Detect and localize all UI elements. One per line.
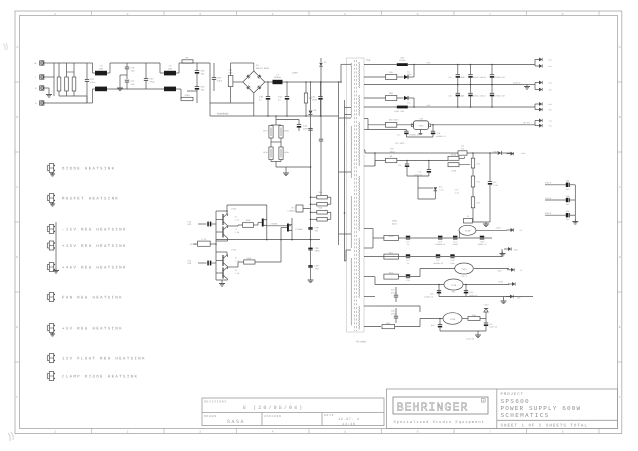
- svg-text:D: D: [619, 255, 621, 259]
- svg-text:+46V: +46V: [493, 150, 499, 153]
- svg-text:POWER SUPPLY 600W: POWER SUPPLY 600W: [501, 405, 582, 412]
- svg-text:8: 8: [562, 12, 564, 16]
- svg-text:-15V REG HEATSINK: -15V REG HEATSINK: [62, 227, 127, 232]
- svg-text:5: 5: [344, 430, 346, 434]
- svg-text:3: 3: [199, 430, 201, 434]
- svg-text:4: 4: [272, 430, 274, 434]
- svg-text:100n: 100n: [303, 127, 309, 130]
- svg-text:471: 471: [315, 229, 320, 232]
- svg-text:TR-SP06: TR-SP06: [356, 341, 367, 344]
- svg-text:R6L9: R6L9: [389, 272, 394, 275]
- svg-text:POWERGND: POWERGND: [217, 112, 229, 115]
- svg-text:3: 3: [199, 12, 201, 16]
- svg-text:K.1P: K.1P: [202, 238, 208, 241]
- svg-text:5: 5: [344, 12, 346, 16]
- svg-text:A: A: [16, 45, 18, 49]
- svg-text:1: 1: [54, 12, 56, 16]
- svg-text:2: 2: [127, 12, 129, 16]
- svg-text:C: C: [16, 185, 18, 189]
- svg-text:470μ: 470μ: [184, 94, 190, 97]
- svg-text:C07 U5C2: C07 U5C2: [395, 142, 405, 145]
- svg-text:6: 6: [417, 12, 419, 16]
- svg-text:D1D0: D1D0: [392, 222, 398, 225]
- svg-text:E: E: [619, 325, 621, 329]
- svg-text:1n0: 1n0: [131, 69, 136, 72]
- svg-text:L200: L200: [450, 318, 456, 321]
- svg-text:BEHRINGER: BEHRINGER: [397, 400, 469, 414]
- svg-text:4: 4: [272, 12, 274, 16]
- svg-text:R6L7: R6L7: [389, 252, 394, 255]
- svg-text:10MB1: 10MB1: [452, 243, 459, 246]
- svg-text:2200-1B: 2200-1B: [489, 326, 498, 329]
- svg-text:47μn: 47μn: [217, 79, 223, 82]
- svg-text:D1b: D1b: [549, 65, 552, 68]
- svg-text:6: 6: [417, 430, 419, 434]
- svg-text:+5V REG HEATSINK: +5V REG HEATSINK: [62, 326, 123, 331]
- svg-text:RP17: RP17: [263, 130, 268, 133]
- svg-text:7C1B: 7C1B: [465, 230, 471, 233]
- svg-text:+15V: +15V: [498, 280, 504, 283]
- svg-text:+15V: +15V: [496, 227, 502, 230]
- svg-text:10000B-25: 10000B-25: [436, 135, 447, 138]
- svg-text:C39: C39: [461, 76, 464, 79]
- svg-text:47μn: 47μn: [150, 80, 156, 83]
- svg-text:CLAMP DIODE HEATSINK: CLAMP DIODE HEATSINK: [62, 374, 138, 379]
- svg-text:47μn: 47μn: [90, 81, 96, 84]
- svg-text:U512: U512: [390, 151, 396, 154]
- svg-text:7: 7: [489, 430, 491, 434]
- svg-text:T91.5: T91.5: [461, 275, 468, 278]
- svg-text:E: E: [16, 325, 18, 329]
- svg-text:470μ0: 470μ0: [391, 291, 398, 294]
- svg-text:4700B-16R: 4700B-16R: [494, 94, 505, 97]
- svg-text:KBL10 600V: KBL10 600V: [256, 67, 270, 70]
- svg-text:L7400B: L7400B: [270, 223, 278, 226]
- svg-text:R200: R200: [246, 219, 252, 222]
- svg-text:FAN REG HEATSINK: FAN REG HEATSINK: [62, 295, 123, 300]
- svg-text:SHEET 1 OF 2 SHEETS TOTAL: SHEET 1 OF 2 SHEETS TOTAL: [501, 424, 588, 429]
- svg-text:F: F: [619, 395, 621, 399]
- svg-text:B: B: [619, 115, 621, 119]
- svg-text:100n: 100n: [407, 73, 412, 76]
- svg-text:DRAWN: DRAWN: [204, 415, 217, 418]
- svg-text:D2b: D2b: [549, 109, 552, 112]
- svg-text:2: 2: [127, 430, 129, 434]
- svg-text:2mH: 2mH: [168, 67, 173, 70]
- svg-text:220B-1B: 220B-1B: [466, 338, 475, 341]
- svg-text:1.37: 1.37: [235, 218, 240, 221]
- svg-text:C47: C47: [397, 133, 400, 136]
- svg-text:Specialized Studio Equipment: Specialized Studio Equipment: [394, 420, 485, 425]
- svg-text:PowerB: PowerB: [513, 81, 521, 84]
- svg-text:C3A-B: C3A-B: [545, 197, 552, 200]
- svg-text:VT62: VT62: [231, 208, 237, 211]
- svg-text:1n0: 1n0: [131, 83, 136, 86]
- svg-text:C19: C19: [448, 76, 451, 79]
- svg-text:B: B: [16, 115, 18, 119]
- svg-text:C3B-B: C3B-B: [545, 182, 552, 185]
- svg-text:D15 U501: D15 U501: [389, 119, 399, 122]
- svg-text:PROJECT: PROJECT: [501, 392, 524, 397]
- svg-text:VT63: VT63: [231, 249, 237, 252]
- svg-text:D3B-B: D3B-B: [545, 212, 552, 215]
- svg-text:C: C: [619, 185, 621, 189]
- svg-text:-15: -15: [519, 269, 522, 272]
- svg-text:12V FLOAT REG HEATSINK: 12V FLOAT REG HEATSINK: [62, 356, 146, 361]
- svg-text:SASA: SASA: [227, 419, 245, 425]
- svg-text:L40B: L40B: [451, 170, 457, 173]
- svg-text:L11B: L11B: [451, 284, 457, 287]
- svg-text:12.07. 4: 12.07. 4: [338, 417, 360, 422]
- svg-text:14:38: 14:38: [342, 422, 356, 427]
- svg-text:10n: 10n: [201, 72, 206, 75]
- svg-text:REVISIONS: REVISIONS: [204, 400, 227, 403]
- svg-text:1B0B1-25: 1B0B1-25: [477, 243, 487, 246]
- svg-text:+5b: +5b: [549, 125, 552, 128]
- svg-text:1u: 1u: [407, 243, 409, 246]
- svg-text:MOSFET HEATSINK: MOSFET HEATSINK: [62, 196, 119, 201]
- svg-text:1u: 1u: [407, 262, 409, 265]
- svg-text:2mH: 2mH: [99, 67, 104, 70]
- svg-text:100n: 100n: [450, 262, 455, 265]
- svg-text:100n: 100n: [315, 250, 321, 253]
- svg-text:T50: T50: [366, 59, 371, 62]
- svg-text:+15V REG HEATSINK: +15V REG HEATSINK: [62, 244, 127, 249]
- svg-text:L08B1B: L08B1B: [287, 209, 295, 212]
- svg-text:15000B-25: 15000B-25: [433, 262, 444, 265]
- svg-text:L10B: L10B: [394, 110, 400, 113]
- svg-text:7915: 7915: [461, 268, 467, 271]
- svg-text:+46V REG HEATSINK: +46V REG HEATSINK: [62, 265, 127, 270]
- svg-text:L7400B: L7400B: [295, 228, 303, 231]
- svg-text:47μ: 47μ: [315, 267, 320, 270]
- svg-text:SCHEMATICS: SCHEMATICS: [501, 412, 550, 419]
- svg-text:+15: +15: [519, 229, 522, 232]
- svg-text:E (20/05/04): E (20/05/04): [243, 405, 304, 411]
- svg-text:2200B-25: 2200B-25: [424, 295, 434, 298]
- svg-text:F: F: [16, 395, 18, 399]
- svg-text:R201: R201: [247, 257, 253, 260]
- svg-text:-15V: -15V: [497, 270, 503, 273]
- svg-text:47nB: 47nB: [312, 98, 318, 101]
- svg-text:SPS600: SPS600: [501, 398, 530, 405]
- svg-text:10000B-25: 10000B-25: [409, 133, 420, 136]
- svg-text:+12V: +12V: [484, 303, 490, 306]
- svg-text:10n: 10n: [201, 88, 206, 91]
- svg-text:+5V RT: +5V RT: [523, 121, 531, 124]
- svg-text:DATE: DATE: [324, 414, 334, 417]
- svg-text:1: 1: [54, 430, 56, 434]
- svg-text:D: D: [16, 255, 18, 259]
- svg-text:8: 8: [562, 430, 564, 434]
- svg-text:L100B: L100B: [399, 59, 406, 62]
- svg-text:R50B: R50B: [451, 153, 457, 156]
- svg-text:7: 7: [489, 12, 491, 16]
- svg-text:CHECKED: CHECKED: [264, 415, 282, 418]
- svg-text:15000B-25: 15000B-25: [435, 243, 446, 246]
- svg-text:G1b: G1b: [549, 89, 552, 92]
- svg-text:4700B-16R: 4700B-16R: [494, 76, 505, 79]
- svg-text:DIODE HEATSINK: DIODE HEATSINK: [62, 166, 115, 171]
- svg-text:600μH: 600μH: [274, 76, 281, 79]
- svg-text:A: A: [619, 45, 621, 49]
- svg-text:100V: 100V: [292, 72, 298, 75]
- svg-text:78C5: 78C5: [419, 124, 425, 127]
